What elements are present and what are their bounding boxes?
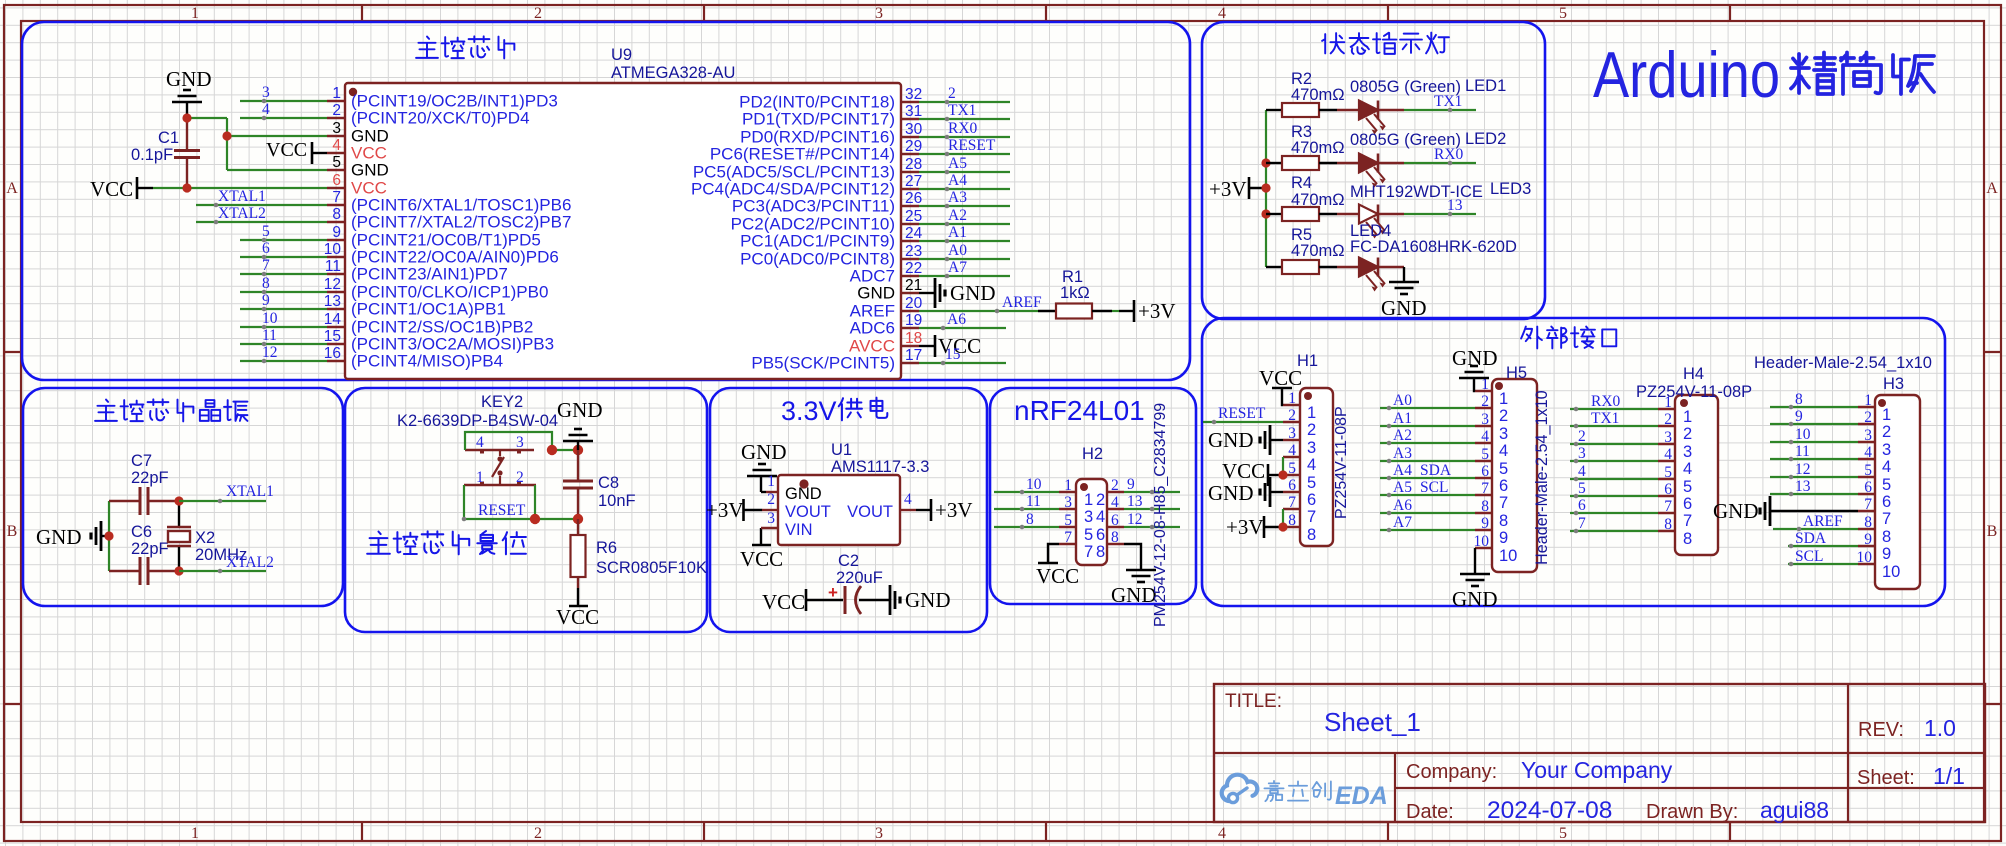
net label 3: [262, 84, 270, 101]
svg-text:10nF: 10nF: [598, 492, 636, 510]
title block outer: [1214, 684, 1985, 822]
net label 8: [262, 275, 270, 292]
svg-text:6: 6: [332, 172, 341, 189]
svg-text:6: 6: [262, 240, 270, 257]
title block sheet value 1/1: [1933, 763, 1965, 789]
junction C1-vcc: [182, 183, 191, 192]
section box 3.3V supply: [710, 388, 987, 632]
svg-text:GND: GND: [1208, 481, 1254, 505]
net label A5 H5: [1393, 479, 1412, 496]
vcc flag left: [90, 177, 153, 201]
svg-text:A4: A4: [948, 172, 967, 189]
svg-text:3: 3: [1683, 443, 1692, 461]
vcc flag C2: [762, 589, 843, 614]
net label 7: [262, 257, 270, 274]
svg-text:5: 5: [262, 223, 270, 240]
junction reset-C8 bottom: [573, 514, 583, 524]
svg-text:PB5(SCK/PCINT5): PB5(SCK/PCINT5): [751, 354, 895, 373]
svg-text:+3V: +3V: [706, 498, 744, 522]
label R6: [596, 539, 617, 557]
svg-text:GND: GND: [166, 67, 212, 91]
header H5 inside pin names: [1499, 390, 1517, 565]
junction reset bottom-left: [530, 514, 540, 524]
svg-text:7: 7: [1683, 512, 1692, 530]
header H3 inside pin names: [1882, 406, 1900, 581]
title text main MCU: [416, 36, 514, 58]
net label 4 H4: [1578, 463, 1586, 480]
resistor R4: [1266, 207, 1337, 221]
ic U1 pin4 stub: [900, 509, 916, 511]
svg-text:1: 1: [1307, 404, 1316, 422]
led LED4: [1337, 258, 1404, 292]
svg-text:GND: GND: [1111, 583, 1157, 607]
svg-text:8: 8: [262, 275, 270, 292]
wire net XTAL2 crystal: [179, 569, 266, 574]
wire net 5 to H4: [1570, 494, 1658, 499]
svg-text:A6: A6: [947, 311, 966, 328]
net label 11 H2: [1026, 493, 1041, 510]
svg-text:4: 4: [1864, 444, 1872, 461]
svg-text:Your Company: Your Company: [1521, 757, 1673, 783]
junction gnd-C8 top: [573, 445, 583, 455]
header H1 pin numbers: [1288, 390, 1296, 529]
svg-text:PZ254V-11-08P: PZ254V-11-08P: [1333, 406, 1350, 519]
title block company value Your Company: [1521, 757, 1673, 783]
junction gnd-C1: [182, 113, 191, 122]
svg-text:REV:: REV:: [1858, 719, 1904, 741]
net label 5 H4: [1578, 480, 1586, 497]
svg-text:2: 2: [767, 491, 775, 508]
ic U1 pin2 stub: [762, 509, 778, 511]
svg-text:18: 18: [905, 330, 922, 347]
net label A2 right: [948, 207, 967, 224]
svg-text:15: 15: [945, 346, 961, 363]
net label SCL H5: [1420, 479, 1448, 496]
wire KEY2 top loop: [465, 432, 552, 450]
net label 7 H4: [1578, 515, 1586, 532]
label R3 value 470m: [1291, 139, 1345, 157]
title text nRF24L01: [1014, 395, 1145, 426]
svg-text:2024-07-08: 2024-07-08: [1487, 797, 1612, 824]
svg-text:3: 3: [875, 825, 883, 842]
header H2 pin1 dot: [1080, 483, 1088, 491]
svg-text:GND: GND: [1381, 296, 1427, 320]
label H4: [1683, 365, 1704, 383]
wire net A1 from U9 pin24: [919, 239, 1010, 244]
net label 15: [945, 346, 961, 363]
border column numbers: [191, 5, 1567, 842]
svg-text:8: 8: [1481, 498, 1489, 515]
svg-text:Arduino: Arduino: [1593, 38, 1780, 111]
net label RESET right: [948, 137, 996, 154]
net label 6: [262, 240, 270, 257]
svg-text:4: 4: [1111, 494, 1119, 511]
svg-text:(PCINT7/XTAL2/TOSC2)PB7: (PCINT7/XTAL2/TOSC2)PB7: [351, 213, 571, 232]
svg-text:32: 32: [905, 86, 922, 103]
net label A7 H5: [1393, 514, 1412, 531]
gnd flag H5 pin10: [1452, 548, 1498, 611]
wire net 9 to H3: [1770, 422, 1858, 427]
svg-text:GND: GND: [785, 485, 822, 503]
svg-text:A6: A6: [1393, 497, 1412, 514]
svg-text:470mΩ: 470mΩ: [1291, 242, 1345, 260]
section box status LEDs: [1202, 22, 1545, 319]
svg-text:5: 5: [1064, 512, 1072, 529]
svg-text:4: 4: [1683, 460, 1692, 478]
wire net A3 to H5: [1380, 459, 1475, 464]
junction LED rail R3: [1261, 158, 1270, 167]
svg-text:7: 7: [1578, 515, 1586, 532]
label R4: [1291, 174, 1312, 192]
net label 12: [262, 344, 278, 361]
header H3 pin stubs: [1858, 407, 1875, 564]
svg-text:VCC: VCC: [1222, 459, 1265, 483]
wire net A7 from U9 pin22: [919, 274, 1010, 279]
label H5: [1506, 364, 1527, 382]
header H1 body: [1300, 388, 1333, 546]
svg-text:9: 9: [262, 292, 270, 309]
net label SCL H3: [1795, 548, 1823, 565]
+3V flag U1 pin4: [916, 498, 973, 522]
wire net 8 to H2: [994, 525, 1059, 530]
svg-text:1kΩ: 1kΩ: [1060, 284, 1090, 302]
svg-text:3: 3: [262, 84, 270, 101]
svg-text:SDA: SDA: [1420, 462, 1452, 479]
ic U9 pin stubs: [327, 101, 919, 363]
svg-text:ADC6: ADC6: [850, 319, 895, 338]
svg-text:1: 1: [191, 5, 199, 22]
svg-text:VOUT: VOUT: [847, 503, 893, 521]
label R3: [1291, 123, 1312, 141]
logo JLC EDA: [1222, 775, 1388, 810]
wire net SCL to H3 pin10: [1788, 562, 1858, 567]
svg-text:VCC: VCC: [762, 590, 805, 614]
svg-text:9: 9: [1127, 476, 1135, 493]
junction LED rail +3V: [1261, 183, 1270, 192]
wire net RX0 to H4: [1570, 407, 1658, 412]
svg-text:PC6(RESET#/PCINT14): PC6(RESET#/PCINT14): [710, 145, 895, 164]
gnd flag crystal: [36, 521, 109, 551]
svg-text:2: 2: [1096, 491, 1105, 509]
resistor R6: [571, 519, 586, 606]
wire H1 pin7-pin8 link: [1282, 509, 1284, 527]
svg-text:ATMEGA328-AU: ATMEGA328-AU: [611, 64, 735, 82]
wire net 15 from U9 pin17: [919, 361, 1006, 366]
header H4 inside pin names: [1683, 408, 1692, 548]
switch KEY2: [464, 450, 536, 485]
gnd flag LEDs: [1381, 282, 1427, 320]
wire net A4 from U9 pin27: [919, 187, 1010, 192]
svg-text:4: 4: [332, 137, 341, 154]
label U1: [831, 441, 852, 459]
net label A4 H5: [1393, 462, 1412, 479]
wire net TX1 from LED: [1404, 108, 1476, 113]
label R2: [1291, 70, 1312, 88]
svg-text:10: 10: [1857, 549, 1873, 566]
gnd flag H2 pin8: [1111, 544, 1157, 607]
wire net A3 from U9 pin26: [919, 204, 1010, 209]
header H1 pin1 dot: [1304, 392, 1312, 400]
svg-text:1: 1: [191, 825, 199, 842]
header H3 pin numbers: [1857, 392, 1873, 566]
wire net 4 to U9 pin2: [240, 116, 327, 121]
header H2 pin stubs: [1059, 492, 1124, 544]
svg-text:3: 3: [1882, 441, 1891, 459]
net label RESET reset-box: [478, 502, 526, 519]
net label SDA H5: [1420, 462, 1452, 479]
svg-text:5: 5: [1481, 446, 1489, 463]
svg-text:3: 3: [1664, 429, 1672, 446]
net label 10 H2: [1026, 476, 1042, 493]
svg-text:2: 2: [1481, 393, 1489, 410]
svg-text:A4: A4: [1393, 462, 1412, 479]
svg-text:PZ254V-11-08P: PZ254V-11-08P: [1636, 383, 1752, 401]
svg-text:GND: GND: [905, 588, 951, 612]
svg-text:A: A: [6, 180, 18, 197]
led LED2: [1337, 154, 1404, 188]
svg-text:C2: C2: [838, 552, 859, 570]
svg-text:5: 5: [1664, 464, 1672, 481]
svg-text:LED1: LED1: [1465, 77, 1506, 95]
svg-text:470mΩ: 470mΩ: [1291, 139, 1345, 157]
svg-text:7: 7: [262, 257, 270, 274]
wire net 2 to H4: [1570, 442, 1658, 447]
svg-text:1: 1: [476, 469, 484, 486]
wire net AREF to H3 pin8: [1773, 527, 1858, 532]
wire net 11 to H3: [1770, 457, 1858, 462]
svg-text:Company:: Company:: [1406, 761, 1497, 783]
wire net 13 to H3: [1770, 492, 1858, 497]
gnd flag C2: [890, 585, 951, 615]
svg-text:2: 2: [1111, 477, 1119, 494]
wire crystal gnd vertical: [108, 501, 110, 571]
svg-text:7: 7: [1288, 494, 1296, 511]
wire net XTAL1 crystal: [179, 499, 266, 504]
junction crystal gnd: [104, 531, 113, 540]
svg-text:22pF: 22pF: [131, 540, 169, 558]
label KEY2 value K2-6639DP-B4SW-04: [397, 412, 558, 430]
net label 13 H3: [1795, 478, 1811, 495]
svg-text:H5: H5: [1506, 364, 1527, 382]
svg-text:A2: A2: [1393, 427, 1412, 444]
net label A4 right: [948, 172, 967, 189]
svg-text:B: B: [1987, 523, 1998, 540]
header H3 pin1 dot: [1878, 399, 1886, 407]
title block sheet name Sheet_1: [1324, 707, 1421, 737]
label LED3 texts: [1350, 180, 1531, 201]
svg-text:5: 5: [1559, 5, 1567, 22]
svg-text:13: 13: [324, 293, 341, 310]
svg-text:5: 5: [1084, 526, 1093, 544]
label U1 value AMS1117-3.3: [831, 458, 929, 476]
junction H1 pin8: [1278, 522, 1287, 531]
svg-text:5: 5: [332, 154, 341, 171]
wire net 9 to U9 pin13: [240, 307, 327, 312]
svg-text:220uF: 220uF: [836, 569, 883, 587]
svg-text:23: 23: [905, 243, 922, 260]
ic U1 pin1 stub: [766, 491, 778, 493]
svg-text:11: 11: [1795, 443, 1810, 460]
junction LED rail R4: [1261, 209, 1270, 218]
svg-text:4: 4: [1499, 442, 1508, 460]
svg-text:SCR0805F10K: SCR0805F10K: [596, 559, 707, 577]
junction pin3 branch: [222, 131, 231, 140]
svg-text:1: 1: [1882, 406, 1891, 424]
svg-text:5: 5: [1683, 478, 1692, 496]
wire net 13 from H2: [1124, 507, 1180, 512]
net label XTAL2 at U9: [218, 205, 266, 222]
svg-text:25: 25: [905, 208, 922, 225]
svg-text:A0: A0: [948, 242, 967, 259]
svg-text:9: 9: [1864, 531, 1872, 548]
svg-text:2: 2: [332, 102, 341, 119]
svg-text:GND: GND: [1713, 499, 1759, 523]
net label A7 right: [948, 259, 967, 276]
switch pin number 4: [476, 434, 484, 451]
label U9 value ATMEGA328-AU: [611, 64, 735, 82]
svg-text:KEY2: KEY2: [481, 393, 523, 411]
net label XTAL1 at U9: [218, 188, 266, 205]
header H5 body: [1492, 379, 1537, 572]
vcc flag H1 pin1: [1259, 366, 1302, 405]
ic U9 pin numbers: [324, 85, 923, 364]
section box external interface: [1202, 318, 1945, 606]
wire KEY2 pin2 down: [534, 485, 536, 519]
svg-text:2: 2: [1288, 407, 1296, 424]
svg-text:XTAL2: XTAL2: [218, 205, 266, 222]
svg-text:RX0: RX0: [1434, 146, 1464, 163]
wire net 12 to U9 pin16: [240, 359, 327, 364]
net label 9: [262, 292, 270, 309]
label C2 value 220uF: [836, 569, 883, 587]
label X2 value 20MHz: [195, 546, 247, 564]
wire net A2 to H5: [1380, 441, 1475, 446]
svg-text:8: 8: [1111, 529, 1119, 546]
svg-text:LED3: LED3: [1490, 180, 1531, 198]
svg-text:1: 1: [1064, 477, 1072, 494]
svg-text:10: 10: [262, 310, 278, 327]
label C7: [131, 452, 152, 470]
svg-text:LED2: LED2: [1465, 130, 1506, 148]
net label A6: [947, 311, 966, 328]
switch pin number 1: [476, 469, 484, 486]
net label TX1 LED: [1434, 93, 1462, 110]
junction H1 pin5: [1278, 470, 1287, 479]
svg-text:8: 8: [1096, 543, 1105, 561]
svg-text:5: 5: [1578, 480, 1586, 497]
net label RX0 right: [948, 120, 978, 137]
led LED3: [1337, 205, 1404, 239]
wire net 6 to U9 pin10: [240, 255, 327, 260]
title block date value: [1487, 797, 1612, 824]
svg-text:4: 4: [1096, 508, 1105, 526]
net label 12 H2 right: [1127, 511, 1143, 528]
label X2: [195, 529, 215, 547]
svg-text:22: 22: [905, 260, 922, 277]
wire net XTAL2 to U9 pin8: [196, 220, 327, 225]
svg-text:GND: GND: [1208, 428, 1254, 452]
wire KEY2 to gnd node: [552, 449, 578, 451]
svg-text:VCC: VCC: [266, 139, 307, 161]
svg-text:RESET: RESET: [478, 502, 526, 519]
svg-text:PC3(ADC3/PCINT11): PC3(ADC3/PCINT11): [732, 197, 895, 216]
svg-text:Sheet_1: Sheet_1: [1324, 707, 1421, 737]
svg-text:6: 6: [1288, 477, 1296, 494]
svg-text:2: 2: [1578, 428, 1586, 445]
svg-text:GND: GND: [36, 525, 82, 549]
svg-text:20: 20: [905, 295, 923, 312]
svg-text:A7: A7: [1393, 514, 1412, 531]
net label 11 H3: [1795, 443, 1810, 460]
svg-text:8: 8: [1882, 528, 1891, 546]
svg-text:9: 9: [1882, 545, 1891, 563]
ic U9 body: [345, 83, 901, 379]
wire net 2 from U9 pin32: [919, 100, 1010, 105]
net label A6 H5: [1393, 497, 1412, 514]
wire net RESET from U9 pin29: [919, 152, 1010, 157]
svg-text:Header-Male-2.54_1x10: Header-Male-2.54_1x10: [1533, 390, 1551, 565]
svg-text:1: 1: [1664, 394, 1672, 411]
label R6 value SCR0805F10K: [596, 559, 707, 577]
title block rev value 1.0: [1924, 715, 1956, 741]
section box nRF24L01: [990, 388, 1196, 604]
svg-text:PD1(TXD/PCINT17): PD1(TXD/PCINT17): [742, 110, 895, 129]
capacitor C7: [109, 487, 179, 515]
svg-text:3: 3: [332, 120, 341, 137]
svg-text:VCC: VCC: [556, 605, 599, 629]
svg-text:12: 12: [262, 344, 278, 361]
net label 11: [262, 327, 277, 344]
svg-text:3: 3: [1864, 427, 1872, 444]
capacitor C8: [563, 450, 593, 519]
svg-text:8: 8: [1026, 511, 1034, 528]
svg-text:13: 13: [1795, 478, 1811, 495]
svg-text:GND: GND: [741, 440, 787, 464]
wire net 8 to H3: [1770, 405, 1858, 410]
svg-text:7: 7: [332, 189, 341, 206]
svg-text:3: 3: [1084, 508, 1093, 526]
+3V flag U1 pin2: [706, 498, 762, 522]
svg-text:5: 5: [1882, 476, 1891, 494]
svg-text:1: 1: [1499, 390, 1508, 408]
svg-text:RESET: RESET: [1218, 405, 1266, 422]
net label 4: [262, 101, 270, 118]
svg-text:FC-DA1608HRK-620D: FC-DA1608HRK-620D: [1350, 238, 1517, 256]
vcc flag U9 pin4: [266, 139, 327, 164]
junction KEY2 top: [547, 445, 557, 455]
svg-text:6: 6: [1307, 491, 1316, 509]
svg-text:1.0: 1.0: [1924, 715, 1956, 741]
header H4 pin numbers: [1664, 394, 1672, 533]
wire net TX1 from U9 pin31: [919, 117, 1010, 122]
switch pin number 3: [516, 434, 524, 451]
svg-text:6: 6: [1882, 493, 1891, 511]
wire net 10 to U9 pin14: [240, 325, 327, 330]
ic U9 pin names: [351, 92, 895, 373]
wire net AREF from U9 pin20: [919, 309, 1038, 314]
net label 6 H4: [1578, 497, 1586, 514]
svg-text:Header-Male-2.54_1x10: Header-Male-2.54_1x10: [1754, 354, 1932, 372]
svg-text:AREF: AREF: [1803, 513, 1843, 530]
capacitor C2 polarized: [828, 583, 890, 614]
svg-text:TX1: TX1: [948, 102, 976, 119]
svg-text:8: 8: [1795, 391, 1803, 408]
title block Date label: [1406, 801, 1454, 823]
net label RX0 H4: [1591, 393, 1621, 410]
wire net A5 to H5: [1380, 493, 1475, 498]
header H5 pin1 dot: [1495, 382, 1503, 390]
svg-text:4: 4: [1218, 5, 1226, 22]
